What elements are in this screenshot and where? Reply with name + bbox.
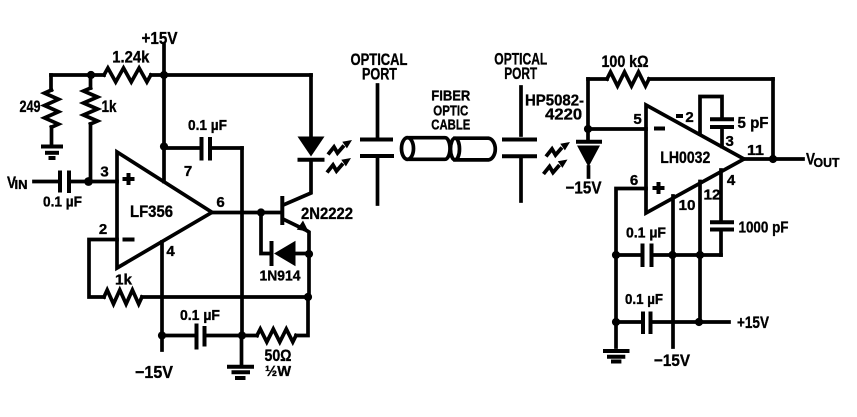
capacitor C 0.1uF input coupling: [43, 171, 82, 211]
svg-text:11: 11: [747, 142, 764, 159]
wire 1k bottom leg: [89, 124, 93, 181]
wire LED to collector: [285, 162, 312, 205]
ground G1: [41, 147, 63, 159]
resistor R 50ohm: [257, 329, 296, 342]
op-amp U2 LH0032 triangle: [646, 105, 744, 213]
node feedback/emitter junction: [304, 293, 312, 301]
node VIN label: [7, 173, 28, 192]
op-amp U1 LF356 triangle: [117, 152, 212, 268]
svg-text:+15V: +15V: [737, 313, 770, 332]
wire +15V stem: [162, 45, 166, 75]
svg-text:1N914: 1N914: [260, 268, 302, 285]
LED photon arrow 2: [327, 158, 351, 173]
svg-text:4: 4: [727, 172, 736, 189]
svg-text:−15V: −15V: [654, 351, 691, 370]
svg-text:0.1 µF: 0.1 µF: [180, 308, 220, 324]
op-amp U2 minus mark: [654, 127, 665, 131]
resistor R 100k feedback: [588, 53, 773, 159]
svg-text:4: 4: [166, 243, 175, 260]
optical port left symbol: [360, 85, 394, 204]
svg-text:OUT: OUT: [814, 155, 840, 170]
op-amp plus input mark: [123, 173, 135, 185]
svg-text:249: 249: [20, 98, 41, 116]
capacitor C 0.1uF rail2: [616, 292, 729, 334]
optical port right symbol: [502, 87, 537, 201]
transistor Q1 2N2222 base bar: [280, 196, 284, 225]
LED D1 cathode bar: [298, 158, 325, 162]
capacitor C 0.1uF bypass (top): [164, 118, 242, 161]
wire output: [744, 157, 803, 161]
wire cap to pin3: [71, 180, 117, 184]
ground G3: [603, 351, 630, 362]
wire 249 top leg: [49, 75, 53, 90]
svg-text:+15V: +15V: [142, 28, 178, 48]
svg-text:0.1 µF: 0.1 µF: [188, 118, 227, 134]
svg-text:6: 6: [216, 194, 224, 211]
svg-text:1000 pF: 1000 pF: [739, 220, 789, 237]
svg-text:PORT: PORT: [504, 65, 537, 83]
node photodiode/input junction: [584, 125, 592, 133]
op-amp U2 plus mark: [653, 182, 665, 194]
svg-text:0.1 µF: 0.1 µF: [43, 195, 82, 211]
node rail2 junction a: [612, 318, 620, 326]
resistor R 1k feedback: [104, 290, 142, 304]
resistor R 1k (input divider): [89, 75, 93, 88]
capacitor C 0.1uF rail1: [616, 226, 721, 268]
svg-text:6: 6: [630, 172, 638, 189]
wire pin2 feedback leg: [89, 240, 117, 298]
LED D1 triangle: [298, 137, 325, 157]
wire 50ohm right leg up: [296, 297, 308, 336]
node VOUT label: [806, 150, 840, 171]
node output junction: [769, 155, 777, 163]
op-amp minus input mark: [123, 238, 135, 242]
svg-text:2: 2: [99, 221, 107, 238]
transistor Q1 emitter: [284, 220, 304, 230]
capacitor C 1000pF: [710, 220, 789, 256]
node VIN junction: [84, 177, 93, 186]
wire pin12 leg: [698, 182, 702, 323]
svg-text:LF356: LF356: [130, 202, 173, 221]
node bypass tap junction: [160, 142, 168, 150]
resistor R 249: [45, 90, 59, 127]
capacitor C 5pF: [710, 115, 769, 147]
photodiode D3: [576, 129, 602, 177]
svg-text:7: 7: [184, 163, 192, 180]
node rail1 junction b: [668, 251, 676, 259]
pin 2 dash mark: [676, 114, 683, 118]
optical port right label: [494, 51, 547, 83]
wire LED top stem: [309, 75, 313, 137]
svg-text:2N2222: 2N2222: [301, 204, 353, 223]
node rail2 junction b: [695, 318, 703, 326]
node junction rail/+15V: [160, 71, 168, 79]
svg-text:0.1 µF: 0.1 µF: [626, 226, 666, 242]
svg-text:2: 2: [685, 109, 693, 126]
wire 249 bottom leg: [50, 127, 54, 144]
svg-text:3: 3: [100, 164, 108, 181]
wire pin6 leg: [616, 189, 646, 348]
wire pin2 comp bracket: [700, 97, 722, 135]
svg-text:10: 10: [679, 197, 696, 214]
wire 1N914 anode to emitter line: [296, 252, 310, 256]
photodiode photon arrow 2: [544, 160, 568, 175]
node ground rail junction: [238, 331, 246, 339]
svg-text:1k: 1k: [115, 272, 133, 289]
node -15V rail junction: [158, 331, 166, 339]
fiber optic cable label: [431, 88, 470, 133]
node junction rail/1k: [87, 71, 95, 79]
photodiode label HP5082-4220: [525, 92, 584, 123]
svg-text:PORT: PORT: [362, 66, 397, 84]
fiber optic cable drawing: [402, 138, 496, 160]
svg-text:LH0032: LH0032: [660, 148, 710, 167]
svg-text:−15V: −15V: [566, 178, 602, 198]
wire base node down to 1N914: [261, 213, 269, 254]
wire top rail left segment: [51, 73, 104, 77]
wire pin4 leg to 1000pF: [719, 170, 723, 220]
svg-text:1.24k: 1.24k: [112, 48, 149, 67]
svg-text:4220: 4220: [545, 107, 582, 124]
node rail1 junction c: [696, 251, 704, 259]
wire feedback rail to emitter node: [142, 295, 308, 299]
svg-text:100 kΩ: 100 kΩ: [602, 53, 649, 71]
capacitor C 0.1uF bottom bypass: [162, 308, 257, 350]
node 1N914/emitter junction: [305, 250, 313, 258]
diode D2 1N914 cathode bar: [270, 241, 274, 266]
svg-text:5 pF: 5 pF: [738, 115, 769, 132]
wire pin7 V+ vertical: [162, 75, 166, 182]
svg-text:3: 3: [726, 133, 734, 150]
svg-text:CABLE: CABLE: [431, 117, 470, 133]
svg-text:FIBER: FIBER: [431, 88, 470, 104]
diode D2 1N914 triangle: [274, 241, 296, 266]
resistor R 1.24k: [104, 68, 151, 82]
svg-text:12: 12: [704, 187, 721, 204]
wire bypass cap right leg down to ground rail: [240, 148, 244, 336]
LED photon arrow 1: [328, 140, 352, 155]
optical port left label: [351, 51, 408, 84]
wire top rail right segment: [151, 73, 311, 77]
svg-text:5: 5: [633, 111, 641, 128]
wire VIN lead: [34, 180, 58, 184]
photodiode photon arrow 1: [546, 142, 570, 157]
ground G2: [227, 336, 254, 379]
wire pin10 leg to -15V: [671, 196, 675, 347]
svg-text:0.1 µF: 0.1 µF: [625, 292, 663, 308]
svg-text:IN: IN: [15, 178, 28, 192]
svg-text:1k: 1k: [102, 98, 118, 116]
node rail1 junction a: [612, 251, 620, 259]
wire input node to pin5: [588, 127, 646, 131]
wire op-amp output to base: [212, 211, 280, 215]
wire pin4 V- leg down: [160, 242, 164, 350]
svg-text:½W: ½W: [265, 363, 292, 380]
wire emitter down to feedback node: [305, 230, 309, 298]
svg-text:−15V: −15V: [135, 362, 173, 382]
node base junction: [257, 208, 265, 216]
